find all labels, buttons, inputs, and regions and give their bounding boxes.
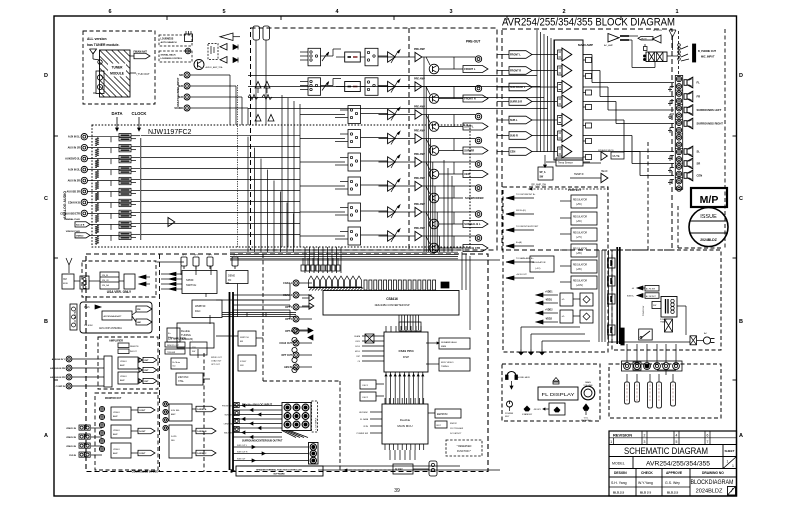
ground symbols power <box>520 349 522 352</box>
input jack J4 (AUX IN 2L) <box>81 166 87 172</box>
svg-text:BLOCKDIAGRAM: BLOCKDIAGRAM <box>691 480 734 486</box>
speaker area dashed lines <box>647 142 649 250</box>
vs jack J81 <box>163 409 168 414</box>
6dB gain box <box>345 82 361 92</box>
svg-text:AES IN: AES IN <box>284 366 292 369</box>
optical jack J61 <box>292 337 297 342</box>
speaker terminal feed wires <box>626 344 628 362</box>
bottom horizontal wires <box>157 261 184 263</box>
svg-text:B_PHONE OUT: B_PHONE OUT <box>698 50 717 53</box>
svg-text:1: 1 <box>610 440 612 444</box>
selector block row 5 <box>348 153 361 171</box>
svg-text:AUX/DVD 2L: AUX/DVD 2L <box>65 158 80 161</box>
digital jack J56 <box>293 352 299 358</box>
antenna adapter rounded box <box>80 302 152 333</box>
svg-text:+VDD1: +VDD1 <box>545 291 553 293</box>
svg-text:(+9V): (+9V) <box>576 269 582 271</box>
vdd arrow -VDD2 <box>536 320 543 324</box>
pre row input wires <box>300 114 345 116</box>
svg-text:AMP: AMP <box>171 413 176 416</box>
speaker ground hook 3 <box>670 113 674 115</box>
svg-text:49 KEY: 49 KEY <box>534 409 542 411</box>
gain block 3 <box>558 83 563 92</box>
title block table <box>609 431 737 496</box>
digital jack J57 <box>293 364 299 370</box>
gain block 6 <box>558 131 563 140</box>
svg-text:ANTENNA ADAPT: ANTENNA ADAPT <box>104 315 123 318</box>
svg-text:DRAWING NO: DRAWING NO <box>702 471 724 475</box>
svg-text:VIDEO1 IN: VIDEO1 IN <box>66 428 76 430</box>
svg-text:VIDEO: VIDEO <box>113 412 120 414</box>
bus black terminal bar <box>621 328 624 345</box>
svg-text:FM: FM <box>137 309 140 311</box>
svg-text:POWER SW: POWER SW <box>643 306 645 316</box>
svg-text:AUX BD 2R: AUX BD 2R <box>67 191 81 194</box>
attenuator block pair row 10 <box>119 232 131 235</box>
osc boxes <box>360 380 376 389</box>
svg-text:PRE AMP: PRE AMP <box>414 227 425 230</box>
selector block row 4 <box>348 130 361 148</box>
svg-text:KEY/ENC: KEY/ENC <box>359 412 368 414</box>
approval checkbox <box>728 487 736 496</box>
hp mute amp A6 (left) <box>653 35 662 43</box>
video amp block 1 <box>118 357 138 369</box>
svg-text:POWER: POWER <box>505 413 514 415</box>
surround out jack box <box>309 443 319 465</box>
surround out jack J72 <box>310 457 316 463</box>
pre-out arrow FRONT L <box>463 66 488 73</box>
svg-text:AUX IN 2L: AUX IN 2L <box>68 169 81 172</box>
dashed detector box <box>208 44 218 60</box>
svg-text:COAX OUT: COAX OUT <box>211 360 222 363</box>
speaker plug 5 <box>671 382 676 406</box>
power thin verticals <box>598 250 600 342</box>
svg-text:FR: FR <box>697 95 701 99</box>
binding post 9 <box>676 135 681 140</box>
video amp dashed box lower <box>95 393 158 470</box>
svg-text:MAIN AMP: MAIN AMP <box>578 43 593 47</box>
wire tuner to njw <box>93 92 96 94</box>
svg-text:MIC_INPUT: MIC_INPUT <box>701 56 715 59</box>
svg-text:VIDEO: VIDEO <box>120 361 127 363</box>
remote arrow label <box>638 37 653 41</box>
svg-text:!SP_AMP_SW: !SP_AMP_SW <box>531 184 547 187</box>
diode pair <box>308 328 313 333</box>
wire verticals from FM area <box>255 48 257 125</box>
svg-text:FUNCTION *: FUNCTION * <box>457 450 471 453</box>
svg-text:2: 2 <box>644 433 646 437</box>
binding post 11 <box>676 149 681 154</box>
speaker plug 2 <box>635 382 640 402</box>
svg-text:1: 1 <box>732 464 734 468</box>
standby key icon <box>524 406 530 411</box>
mute amp A7 <box>601 152 607 160</box>
binding post 5 <box>676 106 681 111</box>
svg-text:V-OUT: V-OUT <box>139 410 146 412</box>
svg-text:CEN: CEN <box>697 174 703 178</box>
svg-text:FRONT L/R: FRONT L/R <box>222 406 233 408</box>
svg-text:PRE AMP: PRE AMP <box>414 130 425 133</box>
svg-text:SURR.B CTR: SURR.B CTR <box>464 246 480 250</box>
amp A23 <box>388 133 396 143</box>
gain block 1 <box>558 50 563 59</box>
svg-text:M/P: M/P <box>700 194 719 206</box>
svg-text:SOFTWARE: SOFTWARE <box>273 473 285 476</box>
pre-out extra verticals <box>443 160 445 252</box>
svg-text:FL DISPLAY: FL DISPLAY <box>542 392 576 398</box>
input jack J6 (AUX BD 2R) <box>81 188 87 194</box>
analog input fan wires <box>234 405 283 407</box>
gain block 2 <box>558 66 563 75</box>
video jack J43 <box>66 383 72 389</box>
driver transistor Q20 <box>429 64 439 74</box>
svg-text:BLD.2.5: BLD.2.5 <box>613 491 625 495</box>
attenuator block pair row 5 <box>119 177 131 180</box>
svg-text:SIGNAL BACK: SIGNAL BACK <box>161 54 177 57</box>
svg-text:MODEL: MODEL <box>612 462 625 466</box>
av jack grid 0,0 <box>79 425 84 430</box>
amp A20 <box>388 52 396 62</box>
relay select box <box>365 78 378 96</box>
speaker plug 1 <box>625 382 630 404</box>
svg-text:+VDD2: +VDD2 <box>545 309 553 311</box>
tuner out label <box>130 72 136 74</box>
svg-text:(+10V): (+10V) <box>576 285 583 287</box>
pre-out arrow SURR.B CTR <box>463 245 488 252</box>
speaker ground hook 6 <box>670 167 674 169</box>
svg-text:AM: AM <box>137 321 141 324</box>
svg-text:CHECK: CHECK <box>641 471 653 475</box>
pre row output wire 4 <box>426 138 475 140</box>
svg-text:MEM: MEM <box>441 346 446 348</box>
regulator U5 <box>571 244 597 257</box>
6dB gain box <box>345 52 361 62</box>
svg-text:AUDIO_AMP_TRA: AUDIO_AMP_TRA <box>206 66 224 69</box>
binding post 16 <box>676 186 681 191</box>
b+ relay box <box>167 328 180 342</box>
svg-text:SWITCH: SWITCH <box>240 337 249 339</box>
pre-out jack J26 <box>475 211 481 217</box>
svg-text:TUNING: TUNING <box>181 333 191 337</box>
svg-text:OPT 1: OPT 1 <box>285 306 293 309</box>
pre-out arrow SUR FL <box>463 123 488 130</box>
svg-text:G.S. Wey: G.S. Wey <box>665 481 680 485</box>
main amp input arrow FRONT R <box>497 70 509 72</box>
xm out arrows <box>139 275 146 279</box>
svg-text:Flexible ANALOG INPUT: Flexible ANALOG INPUT <box>242 403 272 407</box>
monitor jack J49 <box>99 446 104 451</box>
video out arrows 1 <box>139 358 142 362</box>
svg-text:FN: FN <box>228 279 231 282</box>
svg-text:DAC: DAC <box>195 309 201 313</box>
driver transistor Q26 <box>429 219 439 229</box>
headphone icon <box>507 372 516 377</box>
svg-text:ST-BY: ST-BY <box>240 361 247 363</box>
speaker ground hook 1 <box>670 86 674 88</box>
svg-text:SW: SW <box>192 351 195 353</box>
video amp dashed box upper <box>98 337 158 389</box>
feedback cap 3 <box>586 90 592 95</box>
svg-text:VIDEO: VIDEO <box>120 376 127 378</box>
svg-text:TUNER: TUNER <box>112 66 124 70</box>
driver transistor Q27 <box>429 243 439 253</box>
volume pot row 6 <box>391 180 399 193</box>
xm connector <box>80 276 89 289</box>
main amp input arrow FRONT L <box>497 54 509 56</box>
analog in jack 2,2 <box>302 421 309 428</box>
svg-text:VIDEO3 IN: VIDEO3 IN <box>66 446 76 448</box>
sv jack J92 <box>234 418 239 423</box>
svg-text:REGULATOR: REGULATOR <box>573 199 587 202</box>
svg-text:BLD 2 5: BLD 2 5 <box>640 491 652 495</box>
pre row branch wire 6 <box>434 186 436 252</box>
svg-text:PROTECT: PROTECT <box>568 188 582 192</box>
aux jack J13 (SOUND) <box>184 105 190 111</box>
svg-text:STANDBY: STANDBY <box>522 413 533 416</box>
binding post 14 <box>676 171 681 176</box>
FL display dashed box <box>502 364 600 421</box>
svg-text:REGULATOR: REGULATOR <box>573 264 587 267</box>
pre row branch wire 7 <box>436 212 438 252</box>
regulator U2 <box>571 195 597 208</box>
regulator U4 <box>571 228 597 241</box>
svg-text:FRONT L: FRONT L <box>510 54 521 57</box>
bus feed stub boxes <box>608 258 616 268</box>
gain block 4 <box>558 97 563 106</box>
svg-text:S.H. Yang: S.H. Yang <box>611 481 627 485</box>
mcu left labels <box>370 411 382 413</box>
binding post 1 <box>676 76 681 81</box>
attenuator block pair row 1 <box>119 134 131 137</box>
svg-text:SUR FL: SUR FL <box>464 125 474 129</box>
wire bus horizontals lower <box>230 249 458 251</box>
svg-text:PHONE JACK: PHONE JACK <box>516 376 531 379</box>
speaker column dashed stub <box>678 31 680 74</box>
feedback cap 7 <box>586 155 592 160</box>
attenuator block pair row 2 <box>119 144 131 147</box>
av jack grid 2,1 <box>85 443 90 448</box>
M/P stamp box <box>691 188 727 207</box>
svg-text:DSP: DSP <box>403 355 409 359</box>
terminal post 4 <box>654 363 661 370</box>
xm interface box <box>100 272 119 289</box>
svg-text:3: 3 <box>449 9 452 15</box>
svg-text:VIDEO2 PLAY: VIDEO2 PLAY <box>66 230 81 233</box>
middle section dashed box <box>251 28 498 250</box>
xm logic box <box>124 274 135 289</box>
optical jack J60 <box>292 327 297 332</box>
speaker ground hook 5 <box>670 155 674 157</box>
svg-text:REGULATOR: REGULATOR <box>573 280 587 283</box>
svg-text:IN/OUT: IN/OUT <box>130 351 138 353</box>
svg-text:AC_AMP: AC_AMP <box>604 44 614 47</box>
svg-text:SIR: SIR <box>179 74 183 77</box>
svg-text:VIDEO2: VIDEO2 <box>76 235 84 237</box>
digital header plugs <box>309 276 314 287</box>
svg-text:B: B <box>739 319 743 325</box>
series drop wire row 3 <box>110 159 112 165</box>
osc box <box>176 373 203 385</box>
digital section dashed box <box>86 254 488 472</box>
issue stamp circle <box>689 208 728 247</box>
pre row output wire 3 <box>426 114 475 116</box>
svg-text:SUR.BAL B L: SUR.BAL B L <box>464 222 481 226</box>
shunt resistor R3 <box>95 160 99 168</box>
terminal post 3 <box>644 363 651 370</box>
power amp A40 <box>562 48 572 61</box>
svg-text:* CONTROLLED BY MCU: * CONTROLLED BY MCU <box>130 471 159 474</box>
binding post 10 <box>676 142 681 147</box>
vs jack J83 <box>163 425 168 430</box>
selector bus verticals <box>247 137 249 252</box>
svg-text:SR: SR <box>697 162 701 166</box>
pre-out arrow FRONT R <box>463 95 488 102</box>
svg-text:KEY: KEY <box>505 416 510 418</box>
driver transistor Q21 <box>429 94 439 104</box>
trim pot <box>322 53 328 61</box>
attenuator block pair row 3 <box>119 155 131 158</box>
amp A22 <box>388 109 396 119</box>
svg-text:SOUND: SOUND <box>174 107 183 110</box>
svg-text:V-OUT: V-OUT <box>139 453 146 455</box>
attenuator block pair row 8 <box>119 210 131 213</box>
vs jack J80 <box>163 401 168 406</box>
title block model row <box>609 468 737 470</box>
svg-text:Temp Sensor: Temp Sensor <box>558 162 573 165</box>
svg-text:D: D <box>44 73 48 79</box>
video out arrows 2 <box>138 407 155 413</box>
svg-text:REGULATOR: REGULATOR <box>573 248 587 251</box>
svg-text:OPT OUT: OPT OUT <box>281 354 292 357</box>
volume pot row 3 <box>391 108 399 121</box>
speaker plug 4 <box>657 382 662 408</box>
dsp to mcu verticals <box>385 372 387 404</box>
relay select box <box>365 48 378 66</box>
binding post 7 <box>676 120 681 125</box>
svg-text:AUTO SEARCH: AUTO SEARCH <box>161 41 177 44</box>
input selector box <box>308 78 321 96</box>
buffer transistor Q1 <box>194 60 204 70</box>
analog in jack 0,1 <box>293 404 300 411</box>
pre row branch wire 8 <box>438 236 440 252</box>
noise filter box 1 <box>645 286 659 292</box>
svg-text:3: 3 <box>644 440 646 444</box>
svg-text:SUB OUT: SUB OUT <box>237 459 246 461</box>
series drop wire row 2 <box>110 148 112 154</box>
svg-text:APPROVE: APPROVE <box>666 471 683 475</box>
svg-text:CEN/SUB: CEN/SUB <box>224 424 233 426</box>
driver transistor Q23 <box>429 146 439 156</box>
svg-text:AMP: AMP <box>120 364 125 367</box>
svg-text:XM_IN: XM_IN <box>102 275 109 277</box>
selector block row 6 <box>348 177 361 195</box>
dsp config xbox <box>365 334 374 343</box>
svg-text:ASSIGN IN Y: ASSIGN IN Y <box>52 358 66 361</box>
antenna ANT1 <box>92 53 94 60</box>
svg-text:(+7V): (+7V) <box>576 237 582 239</box>
av jack grid 1,0 <box>79 434 84 439</box>
video switch box A <box>169 404 192 421</box>
pre row output wire 7 <box>426 211 475 213</box>
svg-text:PRE AMP: PRE AMP <box>414 48 425 51</box>
svg-text:SWITCH: SWITCH <box>186 283 196 287</box>
svg-text:ASSIGN IN PB: ASSIGN IN PB <box>50 367 65 370</box>
svg-text:LRCK: LRCK <box>355 341 361 343</box>
video amp block 4 <box>111 443 131 458</box>
loudness dashed box 2 <box>159 51 192 62</box>
svg-text:2024BLDZ: 2024BLDZ <box>696 489 723 495</box>
antenna adapter box <box>102 311 132 320</box>
svg-text:AUX IN 1L: AUX IN 1L <box>68 136 81 139</box>
sv jack J90 <box>234 402 239 407</box>
svg-text:AMPLIFIER: AMPLIFIER <box>109 339 123 343</box>
amp feedback verticals <box>536 30 538 152</box>
phones relay box K2 <box>646 52 667 62</box>
vdd arrow +VDD2 <box>536 311 543 315</box>
amp A24 <box>388 157 396 167</box>
input plug arrow (SA-CD BAL) <box>75 222 90 227</box>
bridge box 1 <box>580 293 593 306</box>
svg-text:4: 4 <box>676 433 678 437</box>
noise filter box 2 <box>645 293 659 299</box>
monitor jack J45 <box>99 414 104 419</box>
flexible tuning box <box>177 323 214 348</box>
eject icon <box>553 378 559 382</box>
terminal post 2 <box>633 362 641 370</box>
video jack J42 <box>66 374 72 380</box>
svg-text:7.1CH INPUT: 7.1CH INPUT <box>316 417 318 430</box>
title block names row <box>609 486 690 488</box>
input selector box <box>308 48 321 66</box>
svg-text:4CH SEL: 4CH SEL <box>171 410 181 412</box>
svg-text:ISSUE: ISSUE <box>700 214 717 220</box>
amp A26 <box>388 207 396 217</box>
svg-text:MONITOR OUT: MONITOR OUT <box>105 398 122 400</box>
svg-text:W.Y.Yang: W.Y.Yang <box>638 481 653 485</box>
optical jack J63 <box>292 357 297 362</box>
svg-text:SW B+(D): SW B+(D) <box>516 210 526 212</box>
power amp A43 <box>562 95 572 108</box>
mpx long horizontals <box>248 75 537 77</box>
svg-text:REMOTE: REMOTE <box>130 346 139 348</box>
attenuator block pair row 4 <box>119 166 131 169</box>
svg-text:TO MAIN AMP B+: TO MAIN AMP B+ <box>516 257 534 260</box>
svg-text:SPEAKER MUTE: SPEAKER MUTE <box>598 149 614 152</box>
sv jack J93 <box>234 426 239 431</box>
pre row branch wire 2 <box>425 87 427 253</box>
svg-text:MUTE: MUTE <box>613 155 620 158</box>
terminal strip frame <box>622 361 683 371</box>
svg-text:PRE AMP: PRE AMP <box>414 106 425 109</box>
regulator feed labels <box>506 196 514 200</box>
svg-text:XTAL: XTAL <box>178 380 184 383</box>
svg-text:6: 6 <box>707 433 709 437</box>
diode D2 <box>233 58 238 63</box>
pre-out jack J23 <box>475 137 481 143</box>
svg-text:REMOTE OUT: REMOTE OUT <box>167 345 180 347</box>
phone jack bar <box>693 44 696 62</box>
shunt resistor R6 <box>95 193 99 201</box>
mpx amp up-triangle pair 2 <box>255 115 261 122</box>
svg-text:DVD IN: DVD IN <box>69 455 76 457</box>
speaker ground hook 7 <box>670 179 674 181</box>
svg-text:BLD.2.5: BLD.2.5 <box>667 491 679 495</box>
power amp A42 <box>562 81 572 94</box>
binding post 12 <box>676 157 681 162</box>
binding post 3 <box>676 91 681 96</box>
svg-text:REVISION: REVISION <box>613 433 632 438</box>
relay drive contact <box>644 47 648 51</box>
